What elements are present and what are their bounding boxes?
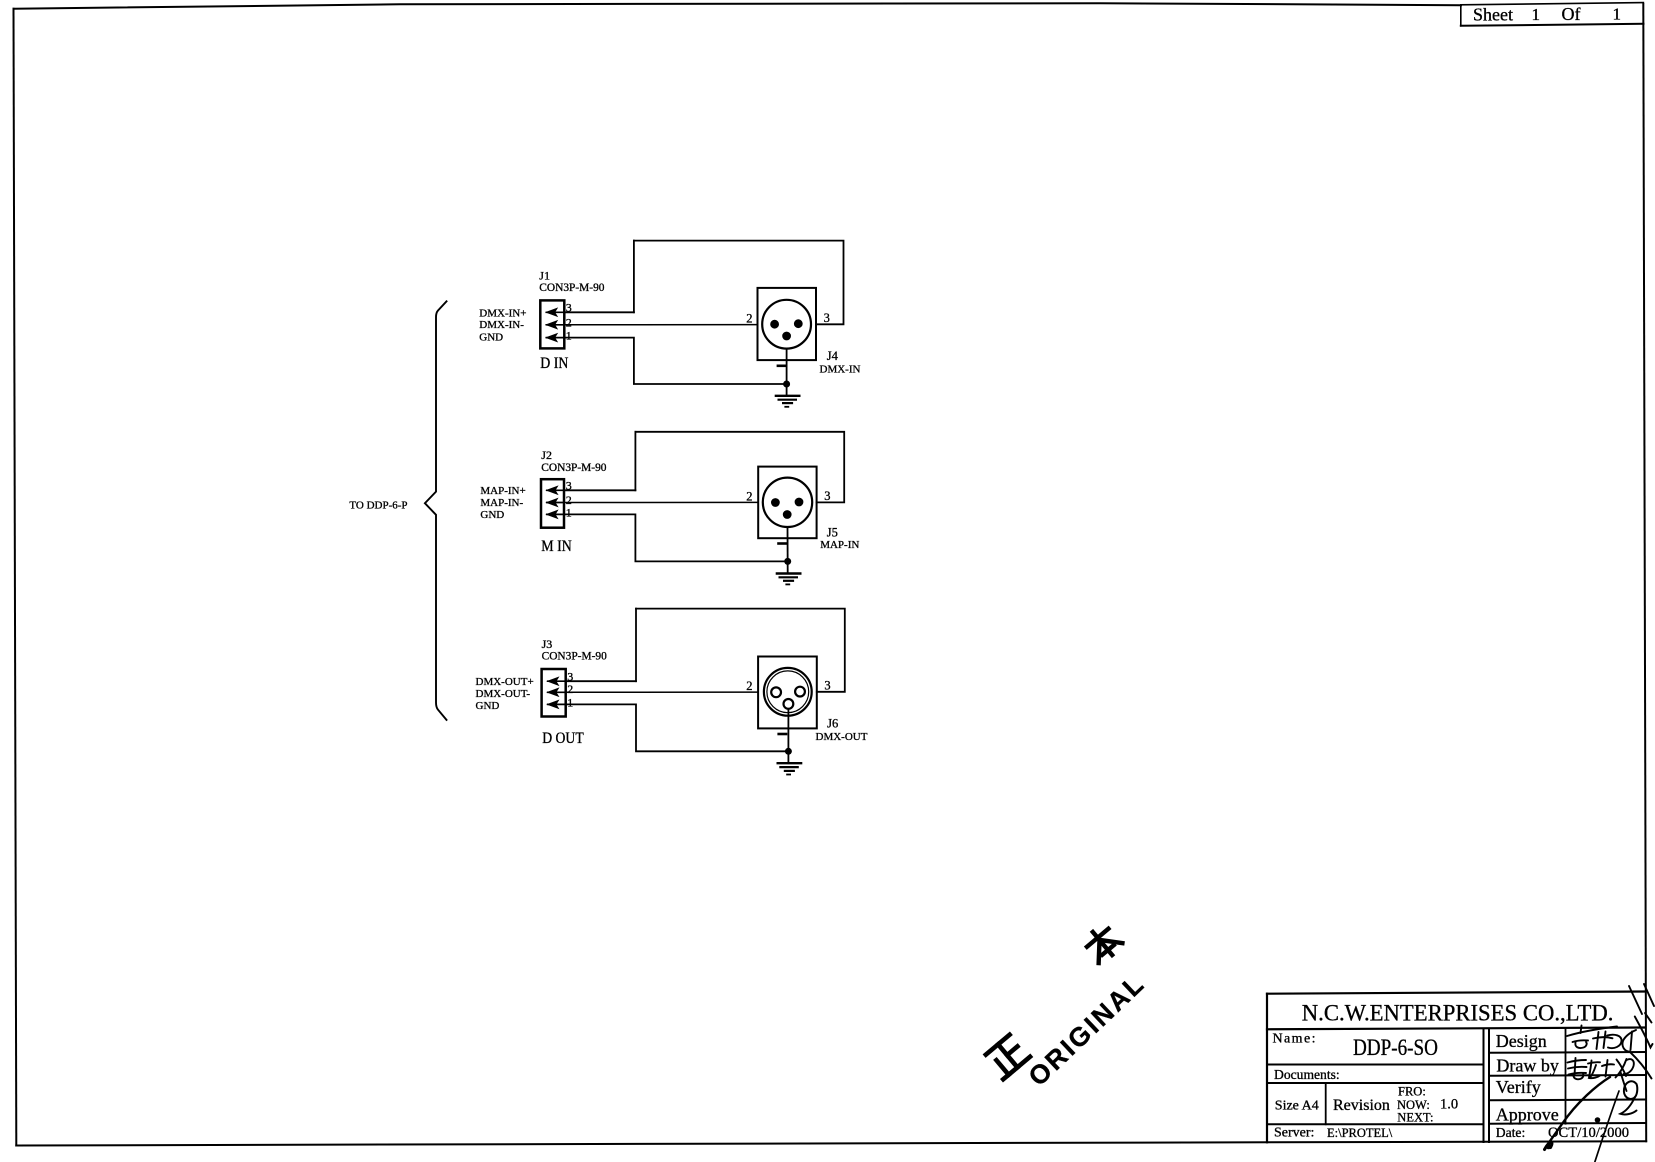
wire J2.1 down [564, 514, 788, 561]
J4 shell ground stem [786, 349, 788, 396]
svg-text:DMX-OUT: DMX-OUT [816, 731, 868, 743]
svg-text:DMX-IN: DMX-IN [820, 364, 861, 376]
svg-text:Approve: Approve [1496, 1105, 1559, 1125]
junction node circuit2 [784, 558, 791, 565]
wire top loop circuit1 [634, 241, 844, 325]
svg-text:CON3P-M-90: CON3P-M-90 [539, 282, 604, 294]
brace TO DDP-6-P [425, 301, 447, 720]
node labels MAP-IN+ / MAP-IN- / GND [480, 485, 525, 521]
wire J2.2 to J5.2 [564, 501, 758, 503]
J2 pin 1 arrow [547, 511, 564, 519]
svg-text:1: 1 [1532, 5, 1541, 24]
svg-text:2: 2 [567, 682, 573, 696]
svg-text:2: 2 [746, 489, 752, 503]
J5 pin labels [746, 489, 859, 551]
svg-text:DMX-IN-: DMX-IN- [479, 319, 524, 331]
svg-text:1: 1 [566, 328, 572, 342]
J1 labels [539, 268, 604, 372]
svg-text:ORIGINAL: ORIGINAL [1022, 970, 1149, 1092]
svg-text:J4: J4 [827, 349, 839, 363]
svg-text:FRO:: FRO: [1398, 1085, 1426, 1099]
svg-text:M IN: M IN [541, 538, 572, 555]
svg-text:1.0: 1.0 [1440, 1096, 1458, 1112]
net label TO DDP-6-P [349, 500, 407, 512]
svg-text:Server:: Server: [1274, 1126, 1314, 1141]
svg-text:Verify: Verify [1496, 1077, 1541, 1097]
stamp character ZHENG (original) [984, 1034, 1030, 1079]
ground symbol circuit1 [776, 396, 799, 407]
wire riser up circuit1 [633, 241, 635, 313]
svg-text:Design: Design [1496, 1031, 1547, 1051]
J3 pin 2 arrow [548, 688, 566, 696]
svg-text:TO DDP-6-P: TO DDP-6-P [349, 500, 407, 512]
J1 pin 1 arrow [546, 334, 564, 342]
svg-text:MAP-IN-: MAP-IN- [480, 497, 523, 509]
connector J3 CON3P-M-90 [542, 669, 566, 717]
connector J1 CON3P-M-90 [540, 300, 564, 348]
J6 pin1 dash [779, 733, 786, 736]
XLR plug J6 DMX-OUT [758, 657, 817, 729]
wire J2.3 to riser [564, 489, 635, 491]
svg-text:DDP-6-SO: DDP-6-SO [1353, 1035, 1438, 1060]
svg-text:Documents:: Documents: [1274, 1067, 1340, 1082]
ground symbol circuit2 [777, 574, 800, 585]
svg-text:Size A4: Size A4 [1275, 1099, 1319, 1114]
XLR receptacle J5 MAP-IN [758, 467, 816, 539]
signature design (handwritten) [1567, 1017, 1653, 1052]
svg-text:1: 1 [1613, 4, 1622, 23]
J3 pin 3 arrow [548, 677, 566, 685]
J1 pin 2 arrow [546, 321, 564, 329]
J5 pin1 dash [779, 542, 786, 545]
node labels DMX-OUT+ / DMX-OUT- / GND [476, 676, 534, 712]
J6 pin labels [746, 679, 868, 743]
J3 labels [542, 637, 607, 747]
title block name field [1273, 1032, 1439, 1060]
junction node circuit3 [785, 748, 792, 755]
XLR receptacle J4 DMX-IN [758, 288, 817, 360]
junction node circuit1 [783, 381, 790, 388]
stamp character BEN (original) [1081, 922, 1124, 965]
svg-text:3: 3 [824, 311, 830, 325]
wire top loop circuit2 [635, 432, 844, 503]
wire J1.2 to J4.2 [564, 324, 757, 326]
svg-text:3: 3 [824, 489, 830, 503]
title block size / revision fields [1275, 1085, 1458, 1125]
svg-text:NEXT:: NEXT: [1397, 1110, 1433, 1124]
svg-text:E:\PROTEL\: E:\PROTEL\ [1327, 1126, 1393, 1140]
svg-text:3: 3 [824, 679, 830, 693]
svg-text:2: 2 [746, 311, 752, 325]
svg-text:1: 1 [567, 696, 573, 710]
J6 shell ground stem [787, 709, 789, 763]
wire J3.3 to riser [566, 680, 636, 682]
svg-text:D OUT: D OUT [542, 730, 584, 747]
J2 pin 2 arrow [547, 499, 564, 507]
svg-text:Name:: Name: [1273, 1032, 1316, 1047]
svg-text:J5: J5 [827, 526, 838, 540]
svg-text:Date:: Date: [1496, 1125, 1525, 1140]
svg-text:2: 2 [746, 679, 752, 693]
svg-text:1: 1 [566, 506, 572, 520]
svg-text:Draw by: Draw by [1496, 1056, 1558, 1076]
svg-text:Of: Of [1562, 4, 1581, 24]
svg-text:DMX-OUT-: DMX-OUT- [476, 688, 531, 700]
sheet number box [1461, 3, 1644, 26]
title block server field [1274, 1126, 1393, 1141]
J2 labels [541, 448, 606, 555]
svg-text:CON3P-M-90: CON3P-M-90 [542, 651, 607, 663]
J2 pin 3 arrow [547, 486, 564, 494]
wire riser up circuit3 [635, 609, 637, 682]
title block approval labels [1496, 1031, 1629, 1141]
svg-text:GND: GND [479, 331, 503, 343]
J1 pin 3 arrow [546, 308, 564, 316]
title block right column rows [1489, 1029, 1646, 1123]
svg-text:J1: J1 [539, 268, 550, 282]
ground symbol circuit3 [778, 763, 801, 774]
svg-text:2: 2 [566, 315, 572, 329]
J5 shell ground stem [787, 527, 789, 573]
title block documents field [1274, 1067, 1340, 1082]
title block company name [1302, 1000, 1614, 1025]
connector J2 CON3P-M-90 [541, 479, 564, 528]
signature draw by (handwritten) [1568, 1052, 1652, 1091]
svg-text:DMX-OUT+: DMX-OUT+ [476, 676, 534, 688]
svg-text:MAP-IN+: MAP-IN+ [480, 485, 525, 497]
svg-text:D IN: D IN [540, 355, 568, 372]
J3 pin 1 arrow [548, 701, 566, 709]
signature stray strokes top right [1629, 984, 1654, 1023]
svg-text:J6: J6 [827, 717, 838, 731]
svg-text:GND: GND [476, 700, 500, 712]
J4 pin1 dash [778, 364, 785, 367]
wire top loop circuit3 [636, 609, 845, 692]
wire J3.2 to J6.2 [566, 691, 758, 693]
sheet number text [1473, 4, 1621, 25]
svg-text:N.C.W.ENTERPRISES CO.,LTD.: N.C.W.ENTERPRISES CO.,LTD. [1302, 1000, 1614, 1025]
svg-text:GND: GND [480, 509, 504, 521]
svg-text:J2: J2 [541, 448, 552, 462]
J4 pin labels [746, 311, 860, 376]
signature approve scrawl [1545, 1077, 1638, 1162]
svg-text:Sheet: Sheet [1473, 5, 1513, 25]
node labels DMX-IN+ / DMX-IN- / GND [479, 307, 526, 343]
title block frame [1267, 992, 1645, 1143]
title block left column rows [1267, 1065, 1484, 1125]
svg-text:J3: J3 [542, 637, 553, 651]
wire J1.1 down [564, 338, 786, 384]
svg-text:CON3P-M-90: CON3P-M-90 [541, 462, 606, 474]
wire riser up circuit2 [634, 432, 636, 491]
wire J3.1 down [566, 704, 789, 751]
wire J1.3 to riser [564, 311, 634, 313]
svg-text:Revision: Revision [1333, 1097, 1390, 1114]
svg-text:DMX-IN+: DMX-IN+ [479, 307, 526, 319]
stamp text ORIGINAL [1022, 970, 1149, 1092]
svg-text:MAP-IN: MAP-IN [820, 539, 859, 551]
